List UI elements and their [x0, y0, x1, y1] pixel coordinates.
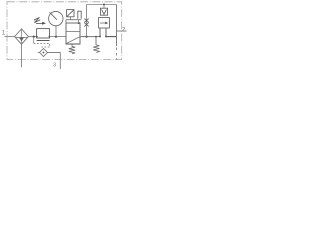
node regulator outlet	[49, 36, 51, 38]
node gauge stem	[55, 36, 57, 38]
node on soft-start top	[78, 22, 80, 24]
node pilot branch	[33, 36, 35, 38]
wire relief to port3	[48, 53, 61, 70]
valve U1 lower box	[99, 18, 110, 28]
drop to soft-start node	[78, 20, 80, 23]
node pilot riser	[85, 36, 87, 38]
pressure gauge G1	[49, 11, 63, 25]
valve port line left	[99, 28, 101, 37]
gauge needle	[50, 12, 57, 19]
node regulator inlet	[36, 36, 38, 38]
connector plug symbol	[78, 11, 81, 19]
signal line above soft-start	[66, 20, 81, 23]
filter water level line	[16, 37, 28, 39]
node spring B	[95, 36, 97, 38]
gauge stem wire	[55, 26, 57, 37]
pressure switch S1 square	[67, 10, 74, 17]
valve flow arrow	[100, 22, 106, 24]
regulator adjust arrow	[36, 22, 43, 24]
pilot dashed line	[34, 43, 50, 47]
right vertical dashed tail	[116, 48, 118, 60]
wire regulator to soft-start	[50, 36, 66, 38]
svg-text:3: 3	[53, 62, 56, 68]
coupling X marks on riser	[84, 19, 88, 27]
svg-text:2: 2	[122, 27, 125, 33]
spring A stem below soft-start	[71, 44, 73, 46]
pressure switch diagonal	[67, 10, 74, 17]
node valve pilot	[103, 4, 105, 6]
pilot riser wire	[86, 5, 88, 37]
soft-start bottom dark edge	[66, 43, 80, 45]
regulator R1 body	[37, 29, 50, 38]
wire filter to regulator	[28, 36, 36, 38]
filter center line	[21, 29, 23, 44]
valve pilot drop wire	[103, 5, 105, 9]
regulator double bottom line	[37, 40, 50, 42]
wire port1 to filter	[5, 36, 15, 38]
relief diamond left stub	[38, 52, 40, 54]
pilot top run wire	[87, 4, 117, 6]
filter drain line	[21, 44, 23, 67]
valve check V symbol	[102, 10, 107, 15]
wire soft-start to valve	[80, 36, 100, 38]
soft-start chord line	[66, 31, 80, 33]
regulator spring zigzag	[34, 17, 40, 22]
port 2 wire	[117, 30, 127, 32]
spring A zigzag	[69, 46, 75, 53]
right vertical wire	[116, 5, 118, 47]
soft-start ramp diagonal	[66, 37, 80, 44]
pressure switch stem	[70, 17, 72, 20]
valve U1 upper box	[100, 8, 107, 15]
relief diamond center dot	[43, 52, 45, 54]
soft-start valve V1 body	[66, 23, 80, 44]
relief diamond (exhaust filter)	[40, 49, 48, 57]
filter condensate triangle	[19, 38, 24, 42]
spring B zigzag	[93, 45, 99, 53]
valve port line right	[105, 28, 107, 37]
filter F1 diamond	[15, 29, 29, 44]
svg-text:1: 1	[2, 29, 6, 36]
pilot drop wire	[33, 37, 35, 44]
enclosure dash-dot boundary	[7, 2, 122, 60]
wire valve to right vertical	[106, 36, 117, 38]
spring B stem wire	[95, 37, 97, 45]
